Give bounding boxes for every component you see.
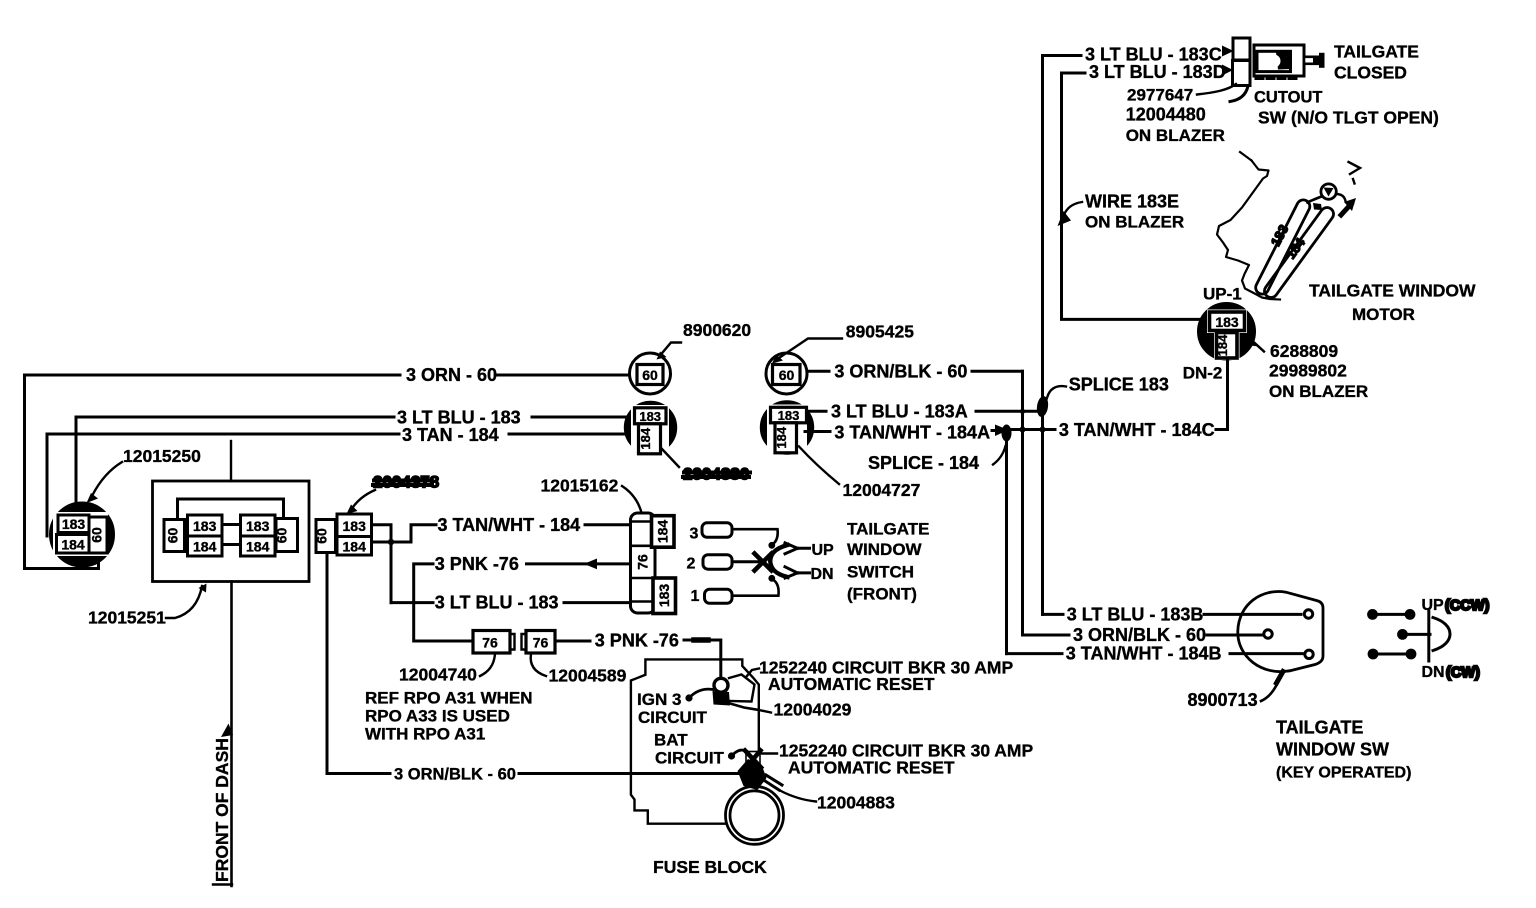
svg-text:DN: DN <box>811 566 834 583</box>
wire front-of-dash divider (below 12015251) <box>230 582 233 887</box>
connector 8905425 ring 60 <box>766 353 807 394</box>
svg-text:184: 184 <box>1215 334 1230 356</box>
wire 3 LT BLU - 183 into 12015162 <box>391 601 631 604</box>
pointer line from ON BLAZER to motor bracket <box>1240 152 1252 161</box>
label TAILGATE WINDOW SWITCH (FRONT) <box>847 520 929 604</box>
svg-text:3 ORN/BLK - 60: 3 ORN/BLK - 60 <box>834 361 967 381</box>
key switch pin 183B <box>1304 610 1312 618</box>
wire 184 stub from chain up to 3 TAN/WHT - 184 line <box>372 525 437 542</box>
connector 6288809 UP-1/DN-2 ring <box>1199 304 1255 361</box>
svg-text:3: 3 <box>690 526 699 543</box>
label CUTOUT SW (N/O TLGT OPEN) <box>1254 89 1439 128</box>
label 12004883 with leader <box>779 790 895 813</box>
pin 1 terminal of front switch <box>691 588 733 605</box>
fuse block outline <box>631 659 759 823</box>
wire 3 ORN/BLK - 60 (from chain 60 cavity down and right to fuse block) <box>327 553 738 774</box>
svg-text:12004727: 12004727 <box>843 480 921 500</box>
wire DN-2 184 down to 184C line <box>1226 358 1229 430</box>
svg-text:3 PNK -76: 3 PNK -76 <box>435 554 519 574</box>
wire 3 TAN/WHT - 184B <box>1007 652 1303 655</box>
svg-text:184: 184 <box>246 539 270 555</box>
connector 2004378 cavity 60 <box>314 520 336 553</box>
12015251 cavity 60 right <box>274 519 298 552</box>
cutout switch body <box>1254 45 1304 79</box>
connector 12015250 cavity 183 <box>58 515 89 533</box>
svg-text:3 TAN/WHT - 184A: 3 TAN/WHT - 184A <box>834 423 990 443</box>
motor mounting bracket outline <box>1217 161 1280 300</box>
label WIRE 183E ON BLAZER with arrow leader <box>1058 192 1185 232</box>
wire links between cavity pairs <box>222 525 241 545</box>
svg-text:12004589: 12004589 <box>549 666 627 686</box>
svg-text:8905425: 8905425 <box>846 322 914 342</box>
cutout switch plunger <box>1304 53 1325 68</box>
key symbol wiper bar <box>1427 611 1430 661</box>
wire stub from 3 TAN down to 12015251 <box>230 441 232 481</box>
switch wiper pivot X <box>755 554 772 571</box>
svg-text:183: 183 <box>343 518 367 534</box>
svg-text:12015250: 12015250 <box>123 446 201 466</box>
svg-text:(KEY OPERATED): (KEY OPERATED) <box>1276 765 1411 782</box>
BAT CIRCUIT pointer dot <box>728 750 747 760</box>
svg-text:SPLICE - 184: SPLICE - 184 <box>868 453 979 473</box>
label TAILGATE WINDOW MOTOR <box>1309 281 1476 325</box>
svg-text:3 LT BLU - 183D: 3 LT BLU - 183D <box>1089 62 1226 82</box>
svg-text:TAILGATE WINDOW: TAILGATE WINDOW <box>1309 281 1476 301</box>
svg-text:12004740: 12004740 <box>399 665 477 685</box>
svg-text:183: 183 <box>62 516 86 532</box>
connector 8900620 ring 183/184 <box>626 403 676 454</box>
label TAILGATE WINDOW SW (KEY OPERATED) <box>1276 718 1411 782</box>
wire 3 PNK -76 with left bracket down to 76 connector <box>414 559 631 642</box>
svg-text:DN-2: DN-2 <box>1183 364 1223 383</box>
svg-text:WINDOW SW: WINDOW SW <box>1276 740 1389 760</box>
svg-text:183: 183 <box>639 409 661 424</box>
svg-text:CIRCUIT: CIRCUIT <box>638 708 708 727</box>
12015251 cavity pair 183/184 right <box>241 515 276 556</box>
wire 3 ORN/BLK - 60 (top, to right column) <box>807 370 1023 373</box>
svg-text:RPO A33 IS USED: RPO A33 IS USED <box>365 707 510 726</box>
svg-text:(FRONT): (FRONT) <box>847 585 917 604</box>
svg-text:76: 76 <box>533 635 549 651</box>
label 12004589 with leader <box>531 654 627 686</box>
motor body half 1 <box>1256 200 1310 294</box>
connector 12015162 cavity 184 <box>652 516 675 548</box>
svg-text:3 ORN/BLK - 60: 3 ORN/BLK - 60 <box>394 766 516 784</box>
svg-text:SW (N/O TLGT OPEN): SW (N/O TLGT OPEN) <box>1258 108 1439 128</box>
svg-text:2: 2 <box>687 556 696 573</box>
svg-text:184: 184 <box>193 539 217 555</box>
key symbol top contact line <box>1367 609 1415 620</box>
UP contact fork <box>785 543 810 554</box>
motor top-right angle mark <box>1336 162 1360 201</box>
label 8900713 with leader <box>1188 672 1284 711</box>
DN contact fork <box>785 567 810 578</box>
svg-text:60: 60 <box>779 367 795 383</box>
svg-text:184: 184 <box>655 520 671 544</box>
wire breaker1 to breaker2 <box>730 704 759 711</box>
label 12004740 with leader <box>399 654 495 685</box>
svg-text:6288809: 6288809 <box>1270 341 1338 361</box>
connector 12015250 cavity 60 <box>89 517 108 553</box>
wire 3 TAN - 184 (left horizontal + drop to connector) <box>47 434 636 536</box>
label 1252240 CIRCUIT BKR 30 AMP (lower) with leader <box>762 741 1033 778</box>
svg-text:(CCW): (CCW) <box>1445 598 1489 614</box>
label 6288809 29989802 ON BLAZER with leader <box>1247 336 1369 402</box>
svg-text:3 TAN/WHT - 184C: 3 TAN/WHT - 184C <box>1059 420 1215 440</box>
label UP(CCW) <box>1422 597 1490 614</box>
svg-text:3 LT BLU - 183B: 3 LT BLU - 183B <box>1067 604 1204 624</box>
key switch 8900713 housing <box>1238 592 1323 672</box>
svg-text:76: 76 <box>482 635 498 651</box>
key symbol rotation arc <box>1433 618 1450 651</box>
label FRONT OF DASH (rotated) with arrow <box>212 724 233 885</box>
grommet circle 12004883 <box>726 786 784 844</box>
12015251 cavity pair 183/184 left <box>188 515 223 556</box>
svg-text:3 TAN/WHT - 184: 3 TAN/WHT - 184 <box>438 515 581 535</box>
svg-text:AUTOMATIC RESET: AUTOMATIC RESET <box>788 758 955 778</box>
svg-text:UP: UP <box>812 542 835 559</box>
svg-text:60: 60 <box>314 528 330 544</box>
connector 2004378 cavity 184 <box>337 537 372 556</box>
label 12015251 with leader <box>88 584 207 628</box>
note REF RPO A31 <box>365 689 533 744</box>
label 12015250 with leader arrow <box>87 446 202 503</box>
motor body half 2 <box>1264 207 1333 297</box>
connector 76 half 12004740 <box>473 631 515 654</box>
label 3 LT BLU - 183C with arrow <box>1085 45 1234 65</box>
label SPLICE 183 with leader <box>1043 375 1169 409</box>
label 12004029 with leader <box>759 700 852 720</box>
IGN 3 CIRCUIT pointer dot <box>685 689 713 701</box>
svg-text:3 TAN/WHT - 184B: 3 TAN/WHT - 184B <box>1066 644 1222 664</box>
svg-text:ON BLAZER: ON BLAZER <box>1269 382 1368 401</box>
svg-text:CLOSED: CLOSED <box>1334 63 1407 83</box>
svg-text:SWITCH: SWITCH <box>847 562 914 581</box>
label 2004378 (scribbled out) with leader <box>347 473 440 515</box>
wire 3 ORN/BLK vertical B <box>1021 371 1024 635</box>
wire pin2 to wiper pivot <box>732 560 758 563</box>
svg-text:REF RPO A31 WHEN: REF RPO A31 WHEN <box>365 689 533 708</box>
svg-text:60: 60 <box>89 527 105 543</box>
svg-text:IGN 3: IGN 3 <box>637 690 681 709</box>
svg-text:3 LT BLU - 183A: 3 LT BLU - 183A <box>831 401 968 421</box>
svg-text:WIRE 183E: WIRE 183E <box>1085 192 1179 212</box>
svg-text:12004883: 12004883 <box>817 793 895 813</box>
svg-text:60: 60 <box>274 528 290 544</box>
svg-text:TAILGATE: TAILGATE <box>1276 718 1363 738</box>
svg-text:TAILGATE: TAILGATE <box>847 520 929 539</box>
wire pin3 to upper contact <box>732 529 778 548</box>
svg-text:WITH RPO A31: WITH RPO A31 <box>365 725 485 744</box>
wire 3 ORN/BLK - 60 (bottom right) <box>1023 634 1264 637</box>
wire 3 TAN/WHT - 184A with arrow into splice 184 <box>805 425 1009 437</box>
svg-text:3 ORN/BLK - 60: 3 ORN/BLK - 60 <box>1073 625 1206 645</box>
junction blob at breaker 2 output <box>738 759 783 790</box>
circuit breaker 1 (IGN 3) <box>713 675 755 706</box>
svg-text:2977647: 2977647 <box>1127 86 1193 105</box>
svg-text:TAILGATE: TAILGATE <box>1334 42 1419 62</box>
svg-text:ON BLAZER: ON BLAZER <box>1126 126 1225 145</box>
svg-text:12015251: 12015251 <box>88 608 166 628</box>
svg-text:183: 183 <box>193 518 217 534</box>
wire 3 PNK -76 (to fuse block) <box>555 640 721 678</box>
svg-text:AUTOMATIC RESET: AUTOMATIC RESET <box>768 674 935 694</box>
motor shaft arrow <box>1341 198 1356 215</box>
label IGN 3 CIRCUIT <box>637 690 708 727</box>
label 3 LT BLU - 183D with arrow <box>1089 62 1233 82</box>
pin 2 terminal of front switch <box>687 555 733 573</box>
wire 3 LT BLU - 183B <box>1043 613 1302 616</box>
svg-text:1: 1 <box>691 588 700 605</box>
key symbol bottom contact line <box>1368 649 1417 660</box>
svg-text:CUTOUT: CUTOUT <box>1254 89 1322 107</box>
svg-text:DN: DN <box>1422 664 1445 681</box>
connector block 12015251 (outline box) <box>153 481 310 582</box>
label 2904886 (scribbled out) with leader <box>662 449 750 484</box>
svg-text:3 PNK -76: 3 PNK -76 <box>595 631 679 651</box>
svg-text:12004480: 12004480 <box>1126 105 1206 125</box>
switch wiper brace <box>770 545 787 577</box>
crossing dots on 184C line <box>1020 409 1046 433</box>
wire 3 TAN/WHT - 184 into 12015162 <box>585 523 631 526</box>
label 12015162 with leader <box>541 476 642 512</box>
label 1252240 CIRCUIT BKR 30 AMP (upper) with leader <box>746 658 1013 695</box>
svg-text:183: 183 <box>656 584 672 608</box>
junction knot at 183/184 stub crossing <box>388 539 394 545</box>
motor cap circle with pointer <box>1308 184 1337 210</box>
svg-text:183: 183 <box>246 518 270 534</box>
connector 12004727 ring 183/184 <box>762 402 813 454</box>
svg-text:3 TAN - 184: 3 TAN - 184 <box>402 425 499 445</box>
connector 12015162 (body) <box>631 513 656 613</box>
label BAT CIRCUIT <box>654 731 725 768</box>
svg-text:60: 60 <box>165 528 181 544</box>
svg-text:8900620: 8900620 <box>683 320 751 340</box>
svg-text:184: 184 <box>774 426 789 448</box>
svg-text:MOTOR: MOTOR <box>1352 305 1415 324</box>
svg-text:184: 184 <box>61 537 85 553</box>
wire 3 LT BLU - 183C (vertical A top + label line) <box>1043 56 1082 615</box>
splice 184 junction blob on vertical C <box>1002 425 1012 442</box>
wire 3 TAN/WHT - 184C <box>1012 428 1055 431</box>
svg-text:3 LT BLU - 183: 3 LT BLU - 183 <box>435 592 559 612</box>
label 8905425 with leader <box>772 322 914 364</box>
svg-text:WINDOW: WINDOW <box>847 540 923 559</box>
wire 3 LT BLU - 183D (vertical D to UP-1) <box>1062 73 1209 319</box>
key switch pin 60 <box>1264 630 1272 638</box>
svg-text:8900713: 8900713 <box>1188 690 1258 710</box>
circuit breaker 2 (BAT) <box>745 751 761 768</box>
wire 3 LT BLU - 183 (left horizontal + drop to 183 cavity) <box>76 417 636 515</box>
label DN(CW) <box>1422 664 1480 681</box>
svg-text:FRONT OF DASH: FRONT OF DASH <box>212 738 232 882</box>
svg-text:184: 184 <box>343 539 367 555</box>
wire pin1 to lower contact <box>732 575 779 596</box>
pin 3 terminal of front switch <box>690 523 733 543</box>
label 12004727 with leader <box>799 447 920 501</box>
connector 2004378 cavity 183 <box>337 514 372 537</box>
wire jumper bracket inside 12015251 <box>178 499 284 519</box>
svg-text:60: 60 <box>642 367 658 383</box>
key switch pin 184B <box>1305 650 1313 658</box>
label SPLICE - 184 with leader <box>868 446 1006 473</box>
svg-text:BAT: BAT <box>654 731 688 750</box>
connector 12015250 cavity 184 <box>57 535 90 554</box>
svg-text:(CW): (CW) <box>1446 665 1480 681</box>
wire 183 stub from chain down to 3 LT BLU - 183 line <box>372 525 392 603</box>
wire 3 ORN - 60 (left horizontal + down-around to connector 60 cavity) <box>25 375 631 569</box>
svg-text:CIRCUIT: CIRCUIT <box>655 749 725 768</box>
svg-text:12004029: 12004029 <box>774 700 852 720</box>
svg-text:3 ORN - 60: 3 ORN - 60 <box>406 365 497 385</box>
connector 76 half 12004589 <box>522 631 556 654</box>
svg-text:SPLICE 183: SPLICE 183 <box>1069 375 1169 395</box>
wire 3 LT BLU - 183A to splice 183 <box>807 410 1043 413</box>
svg-text:ON BLAZER: ON BLAZER <box>1085 213 1184 232</box>
svg-text:29989802: 29989802 <box>1269 361 1347 381</box>
svg-text:76: 76 <box>635 554 651 570</box>
svg-text:183: 183 <box>1215 314 1239 330</box>
svg-text:FUSE BLOCK: FUSE BLOCK <box>653 857 767 877</box>
label 8900620 with leader <box>657 320 752 360</box>
connector 8900620 ring 60 <box>630 353 671 394</box>
svg-text:184: 184 <box>638 427 653 449</box>
label 3 TAN/WHT - 184C with elbow to DN-2 <box>1059 420 1228 440</box>
connector 12015250 (body circle) <box>51 503 114 566</box>
connector 12015162 cavity 183 <box>653 578 676 614</box>
label 2977647 / 12004480 / ON BLAZER with leader <box>1126 84 1236 145</box>
svg-text:UP: UP <box>1422 597 1445 614</box>
connector 2977647 (stacked boxes) <box>1230 38 1250 102</box>
12015251 cavity 60 left <box>164 520 185 552</box>
svg-text:12015162: 12015162 <box>541 476 619 496</box>
splice 183 blob on vertical A <box>1036 395 1050 417</box>
svg-text:183: 183 <box>778 408 800 423</box>
label TAILGATE CLOSED <box>1334 42 1419 83</box>
key symbol middle contact line <box>1397 629 1430 640</box>
wire vertical C (splice 184 down to 184B) <box>1005 430 1008 654</box>
svg-text:UP-1: UP-1 <box>1203 285 1242 304</box>
